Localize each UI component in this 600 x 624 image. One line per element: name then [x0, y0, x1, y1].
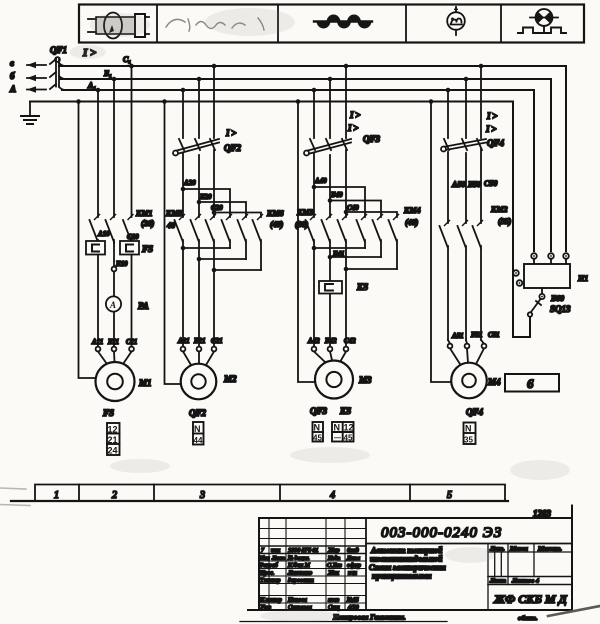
node A4 tap — [446, 88, 451, 93]
svg-text:Б11: Б11 — [107, 338, 119, 346]
svg-text:А₁: А₁ — [87, 81, 96, 90]
svg-text:Т.контр: Т.контр — [260, 578, 280, 584]
wire link B20 to KM6 — [199, 202, 246, 217]
svg-text:А: А — [9, 84, 16, 94]
box 6 — [505, 374, 559, 392]
limit switch SQ13 — [528, 299, 541, 317]
svg-text:№ докум.: № докум. — [287, 555, 310, 562]
svg-text:Юдин М: Юдин М — [287, 562, 311, 569]
label rev header row — [259, 555, 360, 562]
legend icon: pump in circle — [447, 6, 465, 35]
svg-text:Лист: Лист — [489, 578, 506, 585]
svg-text:003-000-0240 ЭЗ: 003-000-0240 ЭЗ — [381, 525, 502, 541]
title block revision columns — [259, 518, 366, 610]
motor M1 — [96, 362, 135, 401]
node C2 tap — [212, 64, 217, 69]
wire link B40 to KM4 — [330, 201, 381, 218]
svg-text:Попова: Попова — [287, 598, 307, 604]
svg-text:QF2: QF2 — [224, 143, 242, 153]
wire phase A bus — [62, 90, 534, 251]
node A3 tap — [312, 88, 317, 93]
svg-text:Дата: Дата — [346, 556, 360, 562]
svg-text:М1: М1 — [138, 378, 152, 388]
thermal element FS phase C — [120, 241, 139, 347]
svg-text:ЖФ СКБ М Д: ЖФ СКБ М Д — [493, 592, 568, 606]
svg-text:QF1: QF1 — [50, 45, 67, 55]
svg-text:Н.контр: Н.контр — [259, 598, 282, 604]
wire A1 dropper — [97, 90, 99, 217]
wire B3 dropper — [329, 79, 331, 138]
stamp QF4 — [464, 423, 476, 445]
svg-text:SQ13: SQ13 — [550, 304, 571, 314]
svg-text:С50: С50 — [484, 179, 497, 188]
title block frame — [248, 506, 572, 611]
node N4 ground tap M4 — [429, 99, 434, 104]
svg-text:КМ5: КМ5 — [165, 209, 183, 218]
thermal relay KS — [319, 281, 342, 294]
svg-text:I >: I > — [485, 124, 496, 134]
terminal B42 — [328, 347, 333, 352]
svg-text:КS: КS — [339, 406, 351, 416]
svg-text:С40: С40 — [347, 204, 359, 212]
svg-text:изм: изм — [271, 548, 280, 554]
svg-text:Линченко: Линченко — [287, 571, 312, 577]
ammeter PA — [106, 296, 121, 311]
stamp FS — [107, 423, 120, 456]
motor M2 — [181, 364, 217, 400]
scale bar — [11, 485, 508, 502]
svg-text:Копировал Гальшина.: Копировал Гальшина. — [332, 613, 406, 622]
svg-text:офмр: офмр — [347, 562, 361, 569]
svg-text:А11: А11 — [91, 338, 103, 346]
device H1 — [524, 264, 570, 288]
svg-text:Масса: Масса — [509, 546, 529, 553]
legend icon: faint sketch — [166, 18, 264, 31]
svg-text:12: 12 — [108, 425, 118, 435]
svg-text:А50: А50 — [451, 180, 465, 189]
svg-text:А10: А10 — [97, 230, 110, 238]
wire link C40 to KM4 — [346, 212, 397, 217]
node C40 — [344, 210, 349, 215]
stamp QF2 — [193, 422, 204, 445]
wire terminals to M3 — [314, 352, 346, 363]
svg-text:М4: М4 — [487, 377, 501, 387]
svg-text:С20: С20 — [211, 204, 223, 212]
node C41 join — [344, 267, 349, 272]
legend icon: valve on cam profile — [518, 9, 566, 33]
svg-text:Листов 4: Листов 4 — [511, 578, 540, 585]
terminal B11 — [112, 347, 117, 352]
svg-text:Б40: Б40 — [330, 191, 343, 199]
svg-text:QF4: QF4 — [487, 138, 505, 148]
margin dash upper — [0, 488, 26, 489]
svg-text:Пров.: Пров. — [259, 571, 274, 577]
node N1 ground tap M1 — [76, 99, 81, 104]
swoosh bottom right — [548, 606, 600, 616]
svg-text:Масшт.: Масшт. — [537, 546, 562, 553]
wire terminals to M1 — [98, 352, 132, 365]
svg-text:Б21: Б21 — [193, 337, 205, 345]
svg-text:(38): (38) — [295, 220, 309, 229]
terminal C21 — [212, 347, 217, 352]
svg-text:I >: I > — [486, 111, 497, 121]
svg-text:12: 12 — [344, 423, 354, 433]
svg-text:принципиальная: принципиальная — [372, 572, 431, 581]
svg-text:М2: М2 — [223, 374, 237, 384]
svg-text:1: 1 — [54, 490, 59, 501]
svg-text:КМ6: КМ6 — [266, 209, 284, 218]
wire ground to motor M2 — [165, 102, 182, 385]
wire ground to motor M3 — [298, 102, 315, 383]
svg-text:С10: С10 — [127, 233, 139, 241]
wire link A40 to KM4 — [314, 187, 365, 217]
wire down to M3 terminals — [314, 248, 346, 347]
stamp KS — [332, 422, 354, 443]
wire join A — [183, 247, 230, 249]
terminal H1 phase B — [548, 253, 554, 259]
contactor KM5 contacts — [175, 189, 215, 270]
svg-text:I >: I > — [349, 110, 360, 120]
svg-text:обкат.: обкат. — [518, 615, 538, 622]
svg-text:№15: №15 — [346, 598, 359, 604]
svg-text:КМ3: КМ3 — [296, 208, 314, 217]
terminal H1 phase C — [563, 253, 569, 259]
svg-text:(35): (35) — [498, 217, 512, 226]
svg-text:QF4: QF4 — [466, 407, 484, 417]
label prov row — [259, 571, 357, 577]
wire join B — [199, 258, 246, 260]
terminal C11 — [129, 347, 134, 352]
svg-text:FS: FS — [102, 408, 114, 418]
node B1 — [112, 77, 117, 82]
wire B1 dropper — [113, 79, 115, 217]
node C1 — [129, 64, 134, 69]
svg-text:N: N — [334, 423, 341, 433]
stamp QF3 — [313, 422, 324, 443]
svg-text:С₁: С₁ — [123, 55, 131, 64]
svg-text:КS: КS — [356, 282, 368, 292]
svg-text:С21: С21 — [211, 337, 223, 345]
terminal H1 phase A — [531, 253, 537, 259]
node B2 tap — [197, 77, 202, 82]
svg-text:(40): (40) — [405, 218, 419, 227]
breaker QF1 — [27, 57, 67, 93]
svg-text:С11: С11 — [126, 338, 137, 346]
contactor KM6 contacts — [222, 220, 262, 270]
svg-text:Б50: Б50 — [467, 180, 481, 189]
contactor KM2 contacts — [440, 226, 482, 340]
svg-text:21: 21 — [108, 435, 118, 445]
thermal element FS phase A — [86, 241, 105, 347]
svg-text:6: 6 — [527, 376, 534, 391]
node C21 join — [212, 268, 217, 273]
wire C4 dropper — [480, 66, 482, 138]
terminal B51 — [465, 344, 470, 349]
title block right columns — [488, 544, 572, 611]
terminal A11 — [96, 347, 101, 352]
svg-text:пчн: пчн — [348, 571, 357, 577]
motor M3 — [315, 361, 353, 399]
svg-text:I >: I > — [347, 123, 358, 133]
svg-text:3: 3 — [199, 490, 205, 501]
svg-text:Б42: Б42 — [324, 337, 337, 345]
wire A2 dropper — [182, 90, 184, 138]
wire join A4 — [314, 247, 365, 249]
svg-text:6лад: 6лад — [347, 547, 359, 554]
node A2 tap — [181, 88, 186, 93]
svg-text:А21: А21 — [177, 337, 190, 345]
node A1 — [96, 88, 101, 93]
svg-text:44: 44 — [194, 436, 203, 445]
svg-text:4/10: 4/10 — [348, 604, 359, 611]
label razrab row — [259, 562, 361, 569]
wire C2 dropper — [213, 66, 215, 138]
wire B4 dropper — [465, 79, 467, 138]
svg-text:2: 2 — [112, 490, 117, 501]
svg-text:Заровская: Заровская — [288, 578, 314, 584]
terminal A21 — [181, 347, 186, 352]
legend icon: auger screw — [314, 15, 372, 29]
node A41 join — [312, 246, 317, 251]
svg-text:QF3: QF3 — [310, 406, 328, 416]
wire phase B bus — [61, 79, 552, 251]
svg-text:N: N — [465, 424, 472, 434]
legend icon: roller bushing — [88, 13, 149, 39]
svg-text:I >: I > — [225, 128, 236, 138]
svg-text:КМ1: КМ1 — [135, 209, 153, 218]
contactor KM4 contacts — [357, 220, 398, 269]
svg-text:Н1: Н1 — [577, 274, 588, 283]
svg-text:Б20: Б20 — [199, 193, 212, 201]
svg-text:А42: А42 — [307, 337, 320, 345]
svg-text:А: А — [109, 300, 116, 310]
svg-text:С.Хав: С.Хав — [327, 563, 342, 569]
wire terminals to M2 — [183, 352, 214, 366]
svg-text:в: в — [10, 58, 14, 68]
wire C3 dropper — [345, 66, 347, 138]
label nkontr row — [259, 598, 359, 604]
svg-text:КМ2: КМ2 — [490, 205, 508, 214]
svg-text:Жир: Жир — [327, 548, 340, 554]
node C4 tap — [479, 64, 484, 69]
wire H1 bottom stub — [541, 288, 543, 294]
node B3 tap — [328, 77, 333, 82]
wire terminals to M4 — [450, 348, 484, 364]
node A21 join — [181, 246, 186, 251]
svg-text:5: 5 — [447, 490, 452, 501]
node N2 ground tap M2 — [162, 99, 167, 104]
svg-text:45: 45 — [313, 434, 322, 443]
margin dash lower — [0, 505, 30, 506]
node A40 — [312, 185, 317, 190]
wire down to M2 terminals — [183, 248, 214, 347]
svg-text:А20: А20 — [183, 179, 196, 187]
wire C1 dropper — [131, 66, 133, 217]
terminal C51 — [482, 344, 487, 349]
wire link A20 to KM6 — [183, 189, 230, 217]
wire A3 dropper — [313, 90, 315, 138]
node C20 — [212, 210, 217, 215]
node A20 — [181, 187, 186, 192]
ground symbol — [21, 102, 39, 125]
svg-text:(49): (49) — [270, 220, 284, 229]
terminal H1 left upper — [513, 270, 519, 276]
svg-text:Жск: Жск — [327, 571, 339, 577]
svg-text:Утв: Утв — [260, 605, 271, 611]
svg-text:б: б — [10, 71, 15, 81]
svg-text:Разраб: Разраб — [259, 562, 279, 569]
svg-text:FS: FS — [141, 244, 153, 254]
svg-text:—: — — [334, 435, 341, 442]
svg-text:N: N — [194, 424, 201, 434]
svg-text:М3: М3 — [358, 375, 372, 385]
svg-text:Изм: Изм — [259, 556, 270, 562]
wire join C4 — [346, 268, 397, 270]
svg-text:Лист: Лист — [271, 556, 285, 562]
svg-text:А40: А40 — [314, 177, 327, 185]
wire QF4 cols to terminals — [448, 340, 484, 344]
svg-text:Б₁: Б₁ — [103, 69, 112, 78]
node N3 ground tap M3 — [296, 99, 301, 104]
svg-text:QF2: QF2 — [189, 408, 207, 418]
terminal C42 — [344, 347, 349, 352]
wire B2 dropper — [198, 79, 200, 138]
svg-text:РА: РА — [138, 301, 149, 311]
svg-text:QF3: QF3 — [363, 134, 381, 144]
label utv row — [260, 604, 359, 611]
svg-text:4: 4 — [330, 490, 335, 501]
svg-text:1686-ПЧ-81: 1686-ПЧ-81 — [288, 548, 318, 554]
node B41 join — [328, 255, 333, 260]
wire ground to motor M1 — [79, 102, 97, 379]
svg-text:жав: жав — [328, 598, 340, 604]
label tkontr row — [260, 578, 314, 584]
wire neutral bus — [30, 102, 530, 338]
label rev row1 — [261, 547, 359, 554]
terminal B60 — [539, 294, 544, 299]
wire join B4 — [330, 256, 381, 258]
contact gap ticks — [95, 215, 483, 226]
svg-text:(26): (26) — [141, 219, 155, 228]
svg-text:Сищ: Сищ — [328, 605, 340, 611]
breaker QF2 — [173, 139, 219, 213]
svg-text:24: 24 — [108, 446, 118, 456]
node B21 join — [197, 257, 202, 262]
wire ground to motor M4 — [431, 102, 451, 383]
breaker QF4 — [441, 139, 486, 223]
svg-text:35: 35 — [464, 436, 473, 445]
svg-text:КМ4: КМ4 — [403, 206, 421, 215]
contactor KM3 contacts — [306, 187, 347, 269]
wire A4 dropper — [447, 90, 449, 138]
wire link C20 to KM6 — [214, 213, 261, 218]
node B20 — [197, 200, 202, 205]
node C3 tap — [344, 64, 349, 69]
node B4 tap — [464, 77, 469, 82]
svg-text:46: 46 — [166, 221, 175, 230]
terminal A42 — [312, 347, 317, 352]
wire terminals into H1 — [534, 259, 566, 264]
svg-text:А51: А51 — [451, 332, 464, 340]
wire phase C bus — [59, 66, 566, 251]
breaker QF3 — [304, 139, 351, 212]
legend strip frame — [79, 5, 584, 43]
svg-text:С42: С42 — [344, 337, 356, 345]
svg-text:Подп: Подп — [327, 555, 340, 562]
terminal A51 — [448, 344, 453, 349]
contactor KM1 contacts — [90, 220, 132, 243]
svg-text:Б10: Б10 — [115, 260, 128, 268]
svg-text:Б51: Б51 — [470, 331, 482, 339]
terminal B10 — [112, 243, 117, 347]
node B40 — [328, 198, 333, 203]
motor M4 — [451, 363, 487, 399]
terminal H1 left lower — [517, 280, 523, 286]
wire join C — [214, 269, 261, 271]
svg-text:С51: С51 — [488, 331, 500, 339]
svg-text:Б60: Б60 — [550, 294, 564, 303]
svg-text:N: N — [314, 423, 321, 433]
svg-text:45: 45 — [344, 434, 353, 443]
terminal B21 — [197, 347, 202, 352]
underline bottom — [240, 621, 447, 623]
